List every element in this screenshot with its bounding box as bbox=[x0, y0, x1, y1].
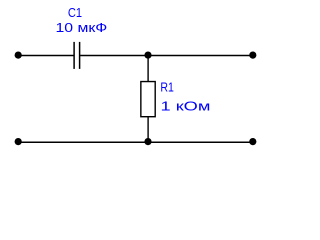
svg-text:C1: C1 bbox=[68, 6, 82, 20]
svg-text:1 кОм: 1 кОм bbox=[161, 100, 211, 114]
svg-text:R1: R1 bbox=[160, 81, 174, 95]
svg-text:10 мкФ: 10 мкФ bbox=[56, 21, 108, 35]
